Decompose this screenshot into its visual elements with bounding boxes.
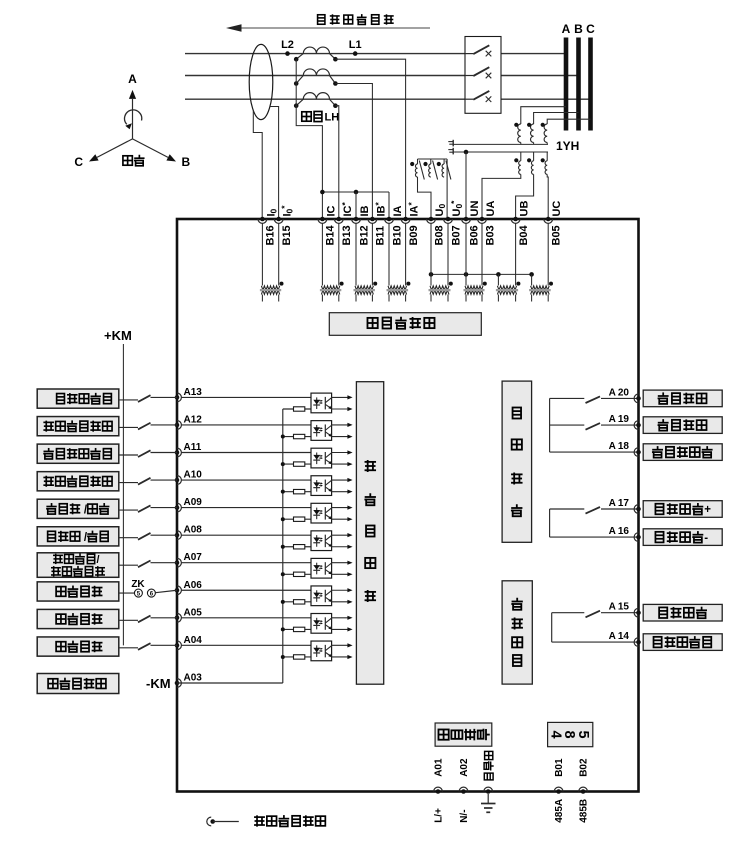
svg-text:A03: A03 (184, 673, 203, 684)
svg-text:IA*: IA* (406, 202, 421, 217)
svg-text:C: C (586, 22, 595, 36)
svg-text:IB*: IB* (373, 202, 388, 217)
svg-text:A 17: A 17 (609, 498, 630, 509)
svg-text:B11: B11 (375, 226, 387, 246)
svg-text:A07: A07 (184, 552, 203, 563)
svg-text:A02: A02 (459, 758, 470, 777)
svg-text:IC*: IC* (339, 202, 354, 217)
svg-text:I0: I0 (265, 208, 278, 216)
svg-text:A08: A08 (184, 525, 203, 536)
svg-text:A12: A12 (184, 414, 203, 425)
svg-text:+: + (704, 504, 711, 516)
svg-text:U0*: U0* (449, 200, 464, 217)
svg-text:B13: B13 (341, 225, 353, 245)
svg-text:A05: A05 (184, 607, 203, 618)
svg-text:B03: B03 (484, 225, 496, 245)
svg-text:1YH: 1YH (556, 139, 579, 153)
svg-text:IC: IC (325, 205, 337, 216)
svg-text:A06: A06 (184, 580, 203, 591)
svg-text:5: 5 (575, 731, 591, 739)
svg-text:/: / (97, 554, 100, 566)
svg-text:-: - (704, 532, 708, 544)
svg-text:A 20: A 20 (609, 387, 630, 398)
svg-text:-KM: -KM (146, 676, 171, 691)
svg-text:UA: UA (485, 201, 497, 217)
svg-text:A09: A09 (184, 497, 203, 508)
svg-text:IB: IB (359, 205, 371, 216)
svg-text:B09: B09 (408, 225, 420, 245)
svg-text:A11: A11 (184, 442, 202, 453)
svg-text:I0*: I0* (279, 205, 294, 217)
svg-text:ZK: ZK (131, 579, 145, 590)
svg-text:L2: L2 (281, 39, 294, 51)
svg-text:N/-: N/- (459, 809, 470, 822)
svg-text:B05: B05 (551, 225, 563, 245)
svg-text:B06: B06 (468, 225, 480, 245)
svg-text:B07: B07 (450, 225, 462, 245)
svg-text:A 19: A 19 (609, 414, 630, 425)
svg-text:485B: 485B (579, 799, 590, 823)
svg-text:A04: A04 (184, 635, 203, 646)
svg-text:B16: B16 (265, 225, 277, 245)
svg-text:B15: B15 (281, 225, 293, 245)
svg-text:8: 8 (561, 731, 577, 739)
svg-text:A 15: A 15 (609, 602, 630, 613)
svg-text:C: C (74, 155, 83, 169)
svg-text:L1: L1 (349, 39, 362, 51)
svg-text:B: B (182, 155, 191, 169)
svg-text:A 16: A 16 (609, 526, 630, 537)
svg-text:UB: UB (519, 201, 531, 217)
svg-text:485A: 485A (554, 799, 565, 823)
svg-text:LH: LH (325, 112, 340, 124)
svg-text:A: A (128, 72, 137, 86)
svg-text:A01: A01 (434, 758, 445, 777)
svg-text:UN: UN (469, 201, 481, 217)
svg-text:+KM: +KM (104, 328, 132, 343)
svg-text:A: A (562, 22, 571, 36)
svg-text:B12: B12 (358, 225, 370, 245)
svg-text:U0: U0 (434, 204, 447, 217)
svg-text:B02: B02 (579, 758, 590, 777)
svg-text:4: 4 (548, 731, 564, 739)
svg-text:L/+: L/+ (434, 808, 445, 823)
svg-text:A10: A10 (184, 470, 203, 481)
svg-text:B: B (574, 22, 583, 36)
svg-text:B04: B04 (518, 224, 530, 245)
svg-text:IA: IA (392, 205, 404, 216)
svg-text:B14: B14 (325, 224, 337, 245)
svg-text:B10: B10 (391, 225, 403, 245)
svg-text:UC: UC (551, 201, 563, 217)
svg-text:B08: B08 (433, 225, 445, 245)
svg-text:A 18: A 18 (609, 441, 630, 452)
svg-text:A13: A13 (184, 387, 203, 398)
svg-text:B01: B01 (554, 758, 565, 777)
svg-text:A 14: A 14 (609, 631, 630, 642)
